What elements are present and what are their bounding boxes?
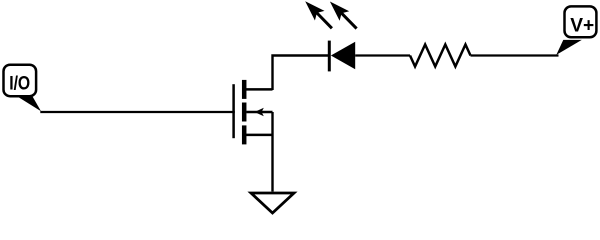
svg-text:I/O: I/O — [9, 72, 30, 94]
ground — [251, 193, 294, 213]
anode triangle — [331, 42, 355, 70]
cathode bar — [328, 41, 331, 72]
wire source down — [271, 112, 273, 192]
node I/O flag — [4, 65, 42, 112]
drain stub — [244, 88, 272, 91]
light arrow 2 — [341, 12, 357, 28]
channel bar drain — [242, 80, 247, 99]
source stub — [244, 134, 272, 137]
gate plate — [232, 84, 235, 138]
transistor M1 (N-MOSFET) — [234, 80, 273, 144]
body stub with arrow — [246, 111, 272, 114]
svg-text:V+: V+ — [570, 15, 594, 37]
node V+ flag — [556, 6, 596, 55]
light arrow 1 — [316, 12, 332, 28]
channel bar source — [242, 125, 247, 144]
wire drain up — [273, 56, 331, 91]
channel bar body — [242, 103, 247, 122]
wire I/O to gate — [40, 111, 235, 113]
led D1 — [305, 1, 356, 71]
wire LED to resistor — [355, 54, 410, 56]
wire resistor to V+ — [471, 54, 559, 56]
resistor R1 — [410, 45, 471, 67]
